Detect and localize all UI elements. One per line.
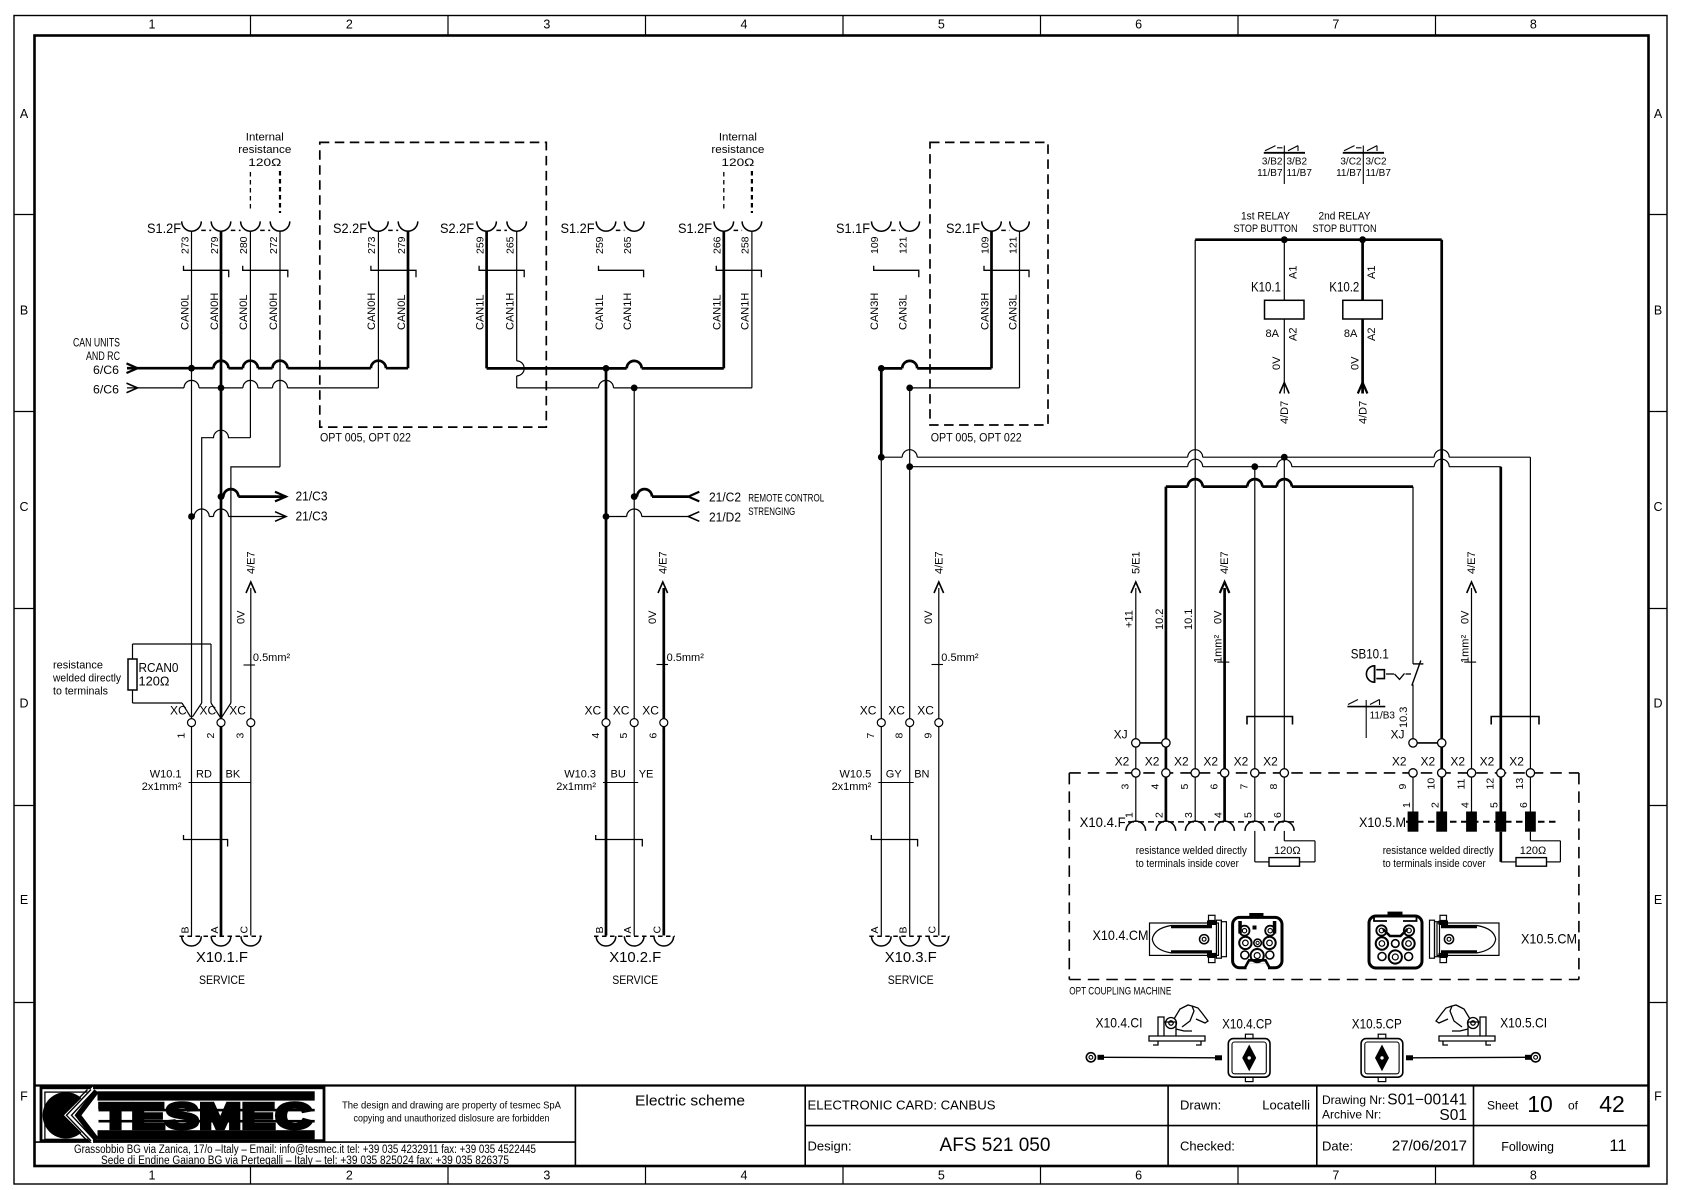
sheet reference 0V 4/E7 (mid) bbox=[1212, 551, 1231, 768]
svg-text:X2: X2 bbox=[1392, 755, 1407, 769]
svg-text:BK: BK bbox=[226, 769, 241, 781]
label internal resistance 120ohm (left) bbox=[238, 132, 291, 170]
svg-text:266: 266 bbox=[712, 236, 724, 254]
label CAN UNITS AND RC bbox=[73, 336, 120, 397]
svg-text:XC: XC bbox=[613, 704, 630, 718]
field Following 11 bbox=[1501, 1137, 1626, 1155]
svg-text:9: 9 bbox=[1397, 784, 1409, 790]
bus line CAN3H (thick) bbox=[881, 231, 991, 368]
note resistance welded X10.5 bbox=[1383, 845, 1494, 870]
svg-text:5: 5 bbox=[618, 733, 630, 739]
svg-text:X10.1.F: X10.1.F bbox=[196, 949, 248, 966]
jumper XJ right bbox=[1391, 728, 1446, 748]
svg-text:3: 3 bbox=[1120, 784, 1132, 790]
svg-text:X10.5.CM: X10.5.CM bbox=[1521, 931, 1577, 947]
svg-text:ELECTRONIC CARD: CANBUS: ELECTRONIC CARD: CANBUS bbox=[808, 1098, 996, 1113]
svg-text:10.3: 10.3 bbox=[1398, 707, 1410, 728]
svg-text:E: E bbox=[1654, 893, 1662, 907]
svg-text:4/E7: 4/E7 bbox=[1466, 551, 1478, 574]
svg-text:0V: 0V bbox=[1349, 356, 1361, 370]
svg-text:XC: XC bbox=[200, 704, 217, 718]
svg-text:3/B2: 3/B2 bbox=[1262, 157, 1283, 168]
sheet reference +11 5/E1 bbox=[1124, 551, 1143, 768]
svg-text:6: 6 bbox=[1135, 1169, 1142, 1183]
svg-text:11/B3: 11/B3 bbox=[1370, 711, 1396, 722]
rail right vertical (thick) bbox=[1440, 240, 1443, 769]
svg-text:5: 5 bbox=[1179, 784, 1191, 790]
contact cross-reference 11/B3 bbox=[1347, 700, 1395, 739]
svg-text:X10.3.F: X10.3.F bbox=[885, 949, 937, 966]
wire CAN1H down to circuit2 bbox=[633, 388, 635, 719]
svg-text:A: A bbox=[869, 926, 881, 933]
shield bracket W10.1 bbox=[184, 835, 228, 847]
connector S1.1F bbox=[836, 220, 920, 254]
svg-text:S01−00141: S01−00141 bbox=[1387, 1092, 1467, 1109]
terminal XC 3 bbox=[229, 704, 255, 739]
svg-text:F: F bbox=[1654, 1090, 1662, 1104]
svg-text:21/C3: 21/C3 bbox=[296, 509, 328, 524]
terminal X2 10 bbox=[1421, 755, 1446, 790]
svg-text:K10.2: K10.2 bbox=[1329, 279, 1359, 295]
junction dot bus2-wireB bbox=[218, 385, 225, 392]
field Design / AFS 521 050 bbox=[808, 1135, 1051, 1156]
dashed box OPT 005 OPT 022 (right) bbox=[930, 142, 1048, 425]
connector S1.2F bbox=[561, 220, 645, 254]
coupling plug X10.5.CP bbox=[1352, 1016, 1403, 1082]
svg-text:W10.3: W10.3 bbox=[564, 769, 596, 781]
internal resistance dashed leads (mid) bbox=[723, 172, 725, 212]
svg-text:CAN3L: CAN3L bbox=[1007, 295, 1019, 330]
svg-text:resistance: resistance bbox=[238, 144, 291, 156]
svg-text:4/E7: 4/E7 bbox=[933, 551, 945, 574]
wires below XC circuit1 bbox=[192, 727, 251, 936]
svg-text:5: 5 bbox=[1489, 802, 1501, 808]
wires below XC circuit2 bbox=[606, 727, 664, 936]
svg-text:259: 259 bbox=[594, 236, 606, 254]
svg-text:XC: XC bbox=[860, 704, 877, 718]
svg-text:CAN1H: CAN1H bbox=[740, 293, 752, 330]
svg-text:2nd RELAY: 2nd RELAY bbox=[1319, 211, 1372, 223]
connector X10.1.F SERVICE bbox=[179, 926, 261, 988]
svg-text:3: 3 bbox=[543, 18, 550, 32]
connector X10.4.F bbox=[1080, 812, 1295, 831]
label 0.5mm2 circuit2 bbox=[657, 652, 705, 665]
title block frame bbox=[35, 1086, 1649, 1167]
svg-text:2x1mm²: 2x1mm² bbox=[556, 781, 596, 793]
svg-text:259: 259 bbox=[474, 236, 486, 254]
svg-text:265: 265 bbox=[622, 236, 634, 254]
shield bracket group5 bbox=[716, 266, 761, 278]
terminal XC 8 bbox=[888, 704, 914, 739]
svg-text:BN: BN bbox=[914, 769, 929, 781]
svg-text:11: 11 bbox=[1455, 778, 1467, 789]
svg-text:9: 9 bbox=[923, 733, 935, 739]
svg-text:6/C6: 6/C6 bbox=[93, 383, 119, 397]
svg-text:B: B bbox=[1654, 304, 1662, 318]
net line thick to SB10.1 bbox=[1166, 479, 1413, 768]
svg-text:1: 1 bbox=[1401, 802, 1413, 808]
svg-text:13: 13 bbox=[1514, 778, 1526, 790]
svg-text:C: C bbox=[239, 926, 251, 934]
svg-text:A: A bbox=[209, 926, 221, 933]
svg-text:S01: S01 bbox=[1439, 1107, 1467, 1124]
svg-text:A1: A1 bbox=[1366, 266, 1378, 279]
svg-text:258: 258 bbox=[740, 236, 752, 254]
supply rail top (thick) bbox=[1195, 238, 1442, 241]
shield bracket W10.5 bbox=[871, 835, 917, 847]
svg-text:Electric scheme: Electric scheme bbox=[635, 1093, 745, 1110]
svg-text:D: D bbox=[1653, 697, 1662, 711]
svg-text:Sheet: Sheet bbox=[1487, 1099, 1519, 1113]
svg-text:GY: GY bbox=[886, 769, 903, 781]
svg-text:Locatelli: Locatelli bbox=[1262, 1098, 1310, 1113]
svg-text:1mm²: 1mm² bbox=[1212, 635, 1224, 663]
svg-text:X2: X2 bbox=[1145, 755, 1160, 769]
svg-text:A: A bbox=[622, 926, 634, 933]
column labels bottom bbox=[149, 1166, 1537, 1184]
wire C vertical from pin 280 bbox=[249, 231, 251, 438]
svg-text:Drawn:: Drawn: bbox=[1180, 1098, 1221, 1113]
svg-text:10: 10 bbox=[1527, 1091, 1553, 1117]
svg-text:3/C2: 3/C2 bbox=[1340, 157, 1362, 168]
junction dot bus1-wireA bbox=[188, 365, 195, 372]
terminal XC 4 bbox=[585, 704, 611, 739]
terminal X2 11 bbox=[1450, 755, 1475, 790]
svg-text:X10.4.CM: X10.4.CM bbox=[1093, 927, 1149, 943]
terminal X2 7 bbox=[1234, 755, 1259, 790]
svg-text:resistance: resistance bbox=[53, 660, 103, 672]
svg-text:120Ω: 120Ω bbox=[1274, 845, 1301, 857]
eyelet and cable X10.4 bbox=[1086, 1053, 1222, 1062]
connector S2.1F bbox=[946, 220, 1029, 254]
svg-text:4: 4 bbox=[590, 733, 602, 739]
label internal resistance 120ohm (mid) bbox=[711, 132, 764, 170]
svg-text:A: A bbox=[1654, 107, 1663, 121]
relay coil K10.2 bbox=[1329, 240, 1382, 424]
wire X2-7 riser bbox=[1254, 467, 1256, 769]
eyelet and cable X10.5 bbox=[1406, 1053, 1540, 1062]
wire C horizontal jog with hop over B bbox=[202, 430, 251, 703]
junction dot CAN3H to X2-8 branch bbox=[1281, 454, 1288, 461]
svg-text:Checked:: Checked: bbox=[1180, 1139, 1235, 1154]
svg-text:CAN1L: CAN1L bbox=[474, 295, 486, 330]
svg-text:CAN1L: CAN1L bbox=[712, 295, 724, 330]
svg-text:STOP BUTTON: STOP BUTTON bbox=[1234, 223, 1298, 235]
junction dot CAN3L to X2-7 branch bbox=[1251, 463, 1258, 470]
svg-text:of: of bbox=[1568, 1099, 1579, 1113]
svg-text:4/E7: 4/E7 bbox=[245, 551, 257, 574]
svg-text:2x1mm²: 2x1mm² bbox=[142, 781, 182, 793]
svg-text:3/C2: 3/C2 bbox=[1366, 157, 1388, 168]
svg-text:6: 6 bbox=[1135, 18, 1142, 32]
wire CAN3H down (thick) bbox=[880, 368, 883, 457]
sheet reference 4/E7 circuit2 bbox=[647, 551, 669, 718]
note resistance welded to terminals bbox=[52, 660, 121, 698]
svg-text:OPT 005, OPT 022: OPT 005, OPT 022 bbox=[931, 431, 1022, 445]
svg-text:XC: XC bbox=[917, 704, 934, 718]
shield bracket S1.2F pair 2 bbox=[243, 266, 288, 278]
shield bracket S1.1F bbox=[874, 266, 919, 278]
svg-text:S2.1F: S2.1F bbox=[946, 220, 980, 236]
junction dot CAN3H line start bbox=[878, 454, 885, 461]
svg-text:CAN0L: CAN0L bbox=[179, 295, 191, 330]
svg-text:279: 279 bbox=[209, 236, 221, 254]
svg-text:B: B bbox=[898, 926, 910, 933]
terminal X2 3 bbox=[1115, 755, 1140, 790]
svg-text:BU: BU bbox=[611, 769, 626, 781]
svg-text:1st RELAY: 1st RELAY bbox=[1241, 211, 1291, 223]
label 1st RELAY STOP BUTTON bbox=[1234, 211, 1298, 236]
svg-text:K10.1: K10.1 bbox=[1251, 279, 1281, 295]
net line CAN3H to X2-13 bbox=[881, 450, 1530, 769]
svg-text:120Ω: 120Ω bbox=[721, 157, 754, 169]
junction dot bus CAN3L bbox=[906, 385, 913, 392]
svg-text:279: 279 bbox=[396, 236, 408, 254]
svg-text:8: 8 bbox=[894, 733, 906, 739]
svg-text:Design:: Design: bbox=[808, 1139, 852, 1154]
svg-text:D: D bbox=[19, 697, 28, 711]
svg-text:welded directly: welded directly bbox=[52, 673, 121, 685]
svg-text:10.2: 10.2 bbox=[1154, 609, 1166, 630]
svg-text:120Ω: 120Ω bbox=[1520, 845, 1547, 857]
svg-text:5/E1: 5/E1 bbox=[1130, 551, 1142, 574]
svg-text:X10.5.M: X10.5.M bbox=[1359, 814, 1406, 830]
wire CAN3H below junction bbox=[880, 457, 882, 718]
svg-text:A2: A2 bbox=[1366, 328, 1378, 341]
svg-text:0V: 0V bbox=[235, 610, 247, 624]
svg-text:4: 4 bbox=[741, 1169, 748, 1183]
svg-text:6: 6 bbox=[1272, 812, 1284, 818]
svg-text:0.5mm²: 0.5mm² bbox=[667, 652, 705, 664]
svg-text:1: 1 bbox=[175, 733, 187, 739]
svg-text:4/E7: 4/E7 bbox=[1219, 551, 1231, 574]
bus line CAN1L (thick) bbox=[487, 231, 724, 368]
svg-text:X10.5.CP: X10.5.CP bbox=[1352, 1016, 1402, 1032]
svg-text:1mm²: 1mm² bbox=[1459, 635, 1471, 663]
cable W10.5 bbox=[832, 769, 930, 794]
svg-text:11: 11 bbox=[1609, 1137, 1626, 1155]
contact cross-reference table K10.1 bbox=[1257, 146, 1312, 185]
field Drawn Locatelli bbox=[1180, 1098, 1310, 1113]
svg-text:SB10.1: SB10.1 bbox=[1351, 646, 1389, 662]
wires X2 to X10.4.F bbox=[1136, 777, 1285, 821]
svg-text:X10.2.F: X10.2.F bbox=[609, 949, 661, 966]
svg-text:8A: 8A bbox=[1344, 328, 1358, 340]
svg-text:XC: XC bbox=[170, 704, 187, 718]
svg-text:X10.4.CI: X10.4.CI bbox=[1096, 1015, 1143, 1031]
connector S2.2F bbox=[333, 220, 418, 254]
resistor RCAN0 120ohm bbox=[128, 644, 231, 717]
TESMEC logo bbox=[41, 1087, 324, 1145]
shield bracket S2.1F bbox=[984, 266, 1029, 278]
svg-text:X2: X2 bbox=[1234, 755, 1249, 769]
svg-text:0.5mm²: 0.5mm² bbox=[253, 652, 291, 664]
svg-text:11/B7: 11/B7 bbox=[1336, 168, 1362, 179]
svg-text:XC: XC bbox=[888, 704, 905, 718]
svg-text:X10.4.F: X10.4.F bbox=[1080, 814, 1126, 830]
svg-text:Internal: Internal bbox=[246, 132, 284, 144]
svg-text:RD: RD bbox=[196, 769, 212, 781]
dashed box OPT 005 OPT 022 (left) bbox=[320, 142, 547, 427]
wire CAN3L down bbox=[909, 388, 911, 719]
svg-text:to terminals: to terminals bbox=[53, 686, 108, 698]
svg-text:REMOTE CONTROL: REMOTE CONTROL bbox=[748, 493, 824, 505]
row labels left bbox=[14, 107, 35, 1104]
shield bracket X2 7-8 bbox=[1247, 717, 1293, 725]
svg-text:1: 1 bbox=[149, 1169, 156, 1183]
svg-text:6: 6 bbox=[1208, 784, 1220, 790]
terminal X2 13 bbox=[1509, 755, 1534, 790]
connector S1.2F bbox=[147, 220, 290, 254]
connector drawing X10.5.CM bbox=[1369, 912, 1577, 968]
svg-text:Sede di Endine Gaiano BG via P: Sede di Endine Gaiano BG via Pertegalli … bbox=[101, 1155, 509, 1167]
svg-text:CAN1H: CAN1H bbox=[622, 293, 634, 330]
svg-text:XC: XC bbox=[585, 704, 602, 718]
connector X10.5.M male pins bbox=[1359, 802, 1560, 832]
svg-text:S1.1F: S1.1F bbox=[836, 220, 870, 236]
svg-text:+11: +11 bbox=[1124, 610, 1136, 628]
svg-text:273: 273 bbox=[179, 236, 191, 254]
svg-text:CAN3H: CAN3H bbox=[979, 293, 991, 330]
label 0.5mm2 circuit3 bbox=[932, 652, 979, 665]
field Drawing Nr / Archive Nr bbox=[1322, 1092, 1467, 1125]
svg-text:4: 4 bbox=[1212, 812, 1224, 818]
svg-text:4: 4 bbox=[741, 18, 748, 32]
shield bracket W10.3 bbox=[596, 835, 643, 847]
svg-text:21/C3: 21/C3 bbox=[296, 489, 328, 504]
wires below XC circuit3 bbox=[881, 727, 939, 936]
svg-text:XJ: XJ bbox=[1391, 728, 1405, 742]
net line CAN3L to X2-12 bbox=[910, 459, 1501, 768]
shield bracket S1.2F group4 bbox=[599, 266, 644, 278]
svg-text:8: 8 bbox=[1530, 18, 1537, 32]
svg-text:4: 4 bbox=[1150, 784, 1162, 790]
terminal X2 4 bbox=[1145, 755, 1170, 790]
push button SB10.1 bbox=[1351, 646, 1424, 739]
svg-text:8: 8 bbox=[1530, 1169, 1537, 1183]
svg-text:W10.1: W10.1 bbox=[150, 769, 182, 781]
junction dot 21/D2 bbox=[603, 513, 610, 520]
disclaimer text bbox=[342, 1100, 561, 1125]
svg-text:4: 4 bbox=[1459, 802, 1471, 808]
svg-text:121: 121 bbox=[1007, 236, 1019, 254]
bus line CAN3L bbox=[910, 231, 1020, 388]
label 2nd RELAY STOP BUTTON bbox=[1313, 211, 1377, 236]
svg-text:S1.2F: S1.2F bbox=[678, 220, 712, 236]
svg-text:Date:: Date: bbox=[1322, 1139, 1353, 1154]
svg-text:280: 280 bbox=[238, 236, 250, 254]
svg-text:XC: XC bbox=[229, 704, 246, 718]
svg-text:AFS 521 050: AFS 521 050 bbox=[940, 1135, 1051, 1156]
wire X2-8 riser bbox=[1283, 457, 1285, 768]
svg-text:265: 265 bbox=[505, 236, 517, 254]
svg-text:X10.5.CI: X10.5.CI bbox=[1500, 1015, 1547, 1031]
sheet reference 0V 4/E7 (right) bbox=[1459, 551, 1478, 768]
junction dot CAN3L line start bbox=[906, 463, 913, 470]
svg-text:X2: X2 bbox=[1421, 755, 1436, 769]
terminal XC 1 bbox=[170, 704, 196, 739]
svg-text:resistance welded directly: resistance welded directly bbox=[1383, 845, 1494, 857]
svg-text:7: 7 bbox=[1332, 18, 1339, 32]
svg-text:2x1mm²: 2x1mm² bbox=[832, 781, 872, 793]
shield bracket X2 12-13 bbox=[1491, 717, 1539, 725]
svg-text:OPT COUPLING MACHINE: OPT COUPLING MACHINE bbox=[1069, 986, 1171, 998]
junction dot bus CAN1L - wire G bbox=[603, 365, 610, 372]
cable W10.1 bbox=[142, 769, 251, 794]
svg-text:6: 6 bbox=[648, 733, 660, 739]
wire CAN0H B vertical (thick) bbox=[220, 231, 223, 718]
svg-text:11/B7: 11/B7 bbox=[1257, 168, 1283, 179]
junction dot K10.2 A1 bbox=[1359, 236, 1366, 243]
junction dot bus CAN3H bbox=[878, 365, 885, 372]
svg-text:109: 109 bbox=[979, 236, 991, 254]
field Sheet 10 of 42 bbox=[1487, 1091, 1625, 1117]
svg-text:STRENGING: STRENGING bbox=[748, 506, 795, 518]
junction dot 21/C3 upper bbox=[218, 493, 225, 500]
svg-text:3/B2: 3/B2 bbox=[1287, 157, 1308, 168]
svg-text:CAN3L: CAN3L bbox=[898, 295, 910, 330]
svg-text:C: C bbox=[927, 926, 939, 934]
address lines bbox=[74, 1144, 536, 1167]
svg-text:5: 5 bbox=[938, 1169, 945, 1183]
clamp drawing X10.5.CI bbox=[1436, 1005, 1547, 1045]
svg-text:A: A bbox=[20, 107, 29, 121]
svg-text:S2.2F: S2.2F bbox=[333, 220, 367, 236]
svg-text:F: F bbox=[20, 1090, 28, 1104]
net arrow 21/C3 lower bbox=[192, 509, 328, 524]
svg-text:7: 7 bbox=[1332, 1169, 1339, 1183]
svg-text:Following: Following bbox=[1501, 1140, 1554, 1154]
svg-text:Grassobbio BG via Zanica, 17/o: Grassobbio BG via Zanica, 17/o –Italy – … bbox=[74, 1144, 536, 1156]
rail left vertical 10.1 bbox=[1194, 240, 1196, 769]
svg-text:11/B7: 11/B7 bbox=[1366, 168, 1392, 179]
svg-text:5: 5 bbox=[938, 18, 945, 32]
svg-text:1: 1 bbox=[149, 18, 156, 32]
contact cross-reference table K10.2 bbox=[1336, 146, 1391, 185]
svg-text:3: 3 bbox=[543, 1169, 550, 1183]
net arrow 21/D2 STRENGING bbox=[606, 506, 795, 525]
svg-text:6: 6 bbox=[1518, 802, 1530, 808]
svg-text:B: B bbox=[179, 926, 191, 933]
svg-text:21/C2: 21/C2 bbox=[709, 490, 741, 505]
svg-text:X2: X2 bbox=[1480, 755, 1495, 769]
terminal XC 2 bbox=[200, 704, 226, 739]
cable W10.3 bbox=[556, 769, 653, 794]
bus line CAN1H bbox=[517, 231, 752, 388]
internal resistance dashed leads (left) bbox=[249, 172, 251, 212]
svg-text:120Ω: 120Ω bbox=[139, 674, 170, 689]
svg-text:10: 10 bbox=[1426, 778, 1438, 790]
svg-text:B: B bbox=[594, 926, 606, 933]
coupling plug X10.4.CP bbox=[1222, 1016, 1272, 1082]
terminal XC 5 bbox=[613, 704, 639, 739]
svg-text:The design and drawing are pro: The design and drawing are property of t… bbox=[342, 1100, 561, 1112]
svg-text:4/D7: 4/D7 bbox=[1357, 401, 1369, 424]
svg-text:12: 12 bbox=[1485, 778, 1497, 790]
wire CAN1L down to circuit2 (thick) bbox=[605, 368, 608, 718]
svg-text:X2: X2 bbox=[1203, 755, 1218, 769]
svg-text:11/B7: 11/B7 bbox=[1287, 168, 1313, 179]
svg-text:S1.2F: S1.2F bbox=[147, 220, 181, 236]
svg-text:C: C bbox=[652, 926, 664, 934]
svg-text:SERVICE: SERVICE bbox=[888, 973, 934, 987]
svg-text:2: 2 bbox=[1430, 802, 1442, 808]
svg-text:YE: YE bbox=[639, 769, 654, 781]
svg-text:E: E bbox=[20, 893, 28, 907]
svg-text:resistance welded directly: resistance welded directly bbox=[1136, 845, 1247, 857]
sheet reference 4/E7 circuit3 bbox=[923, 551, 945, 718]
svg-text:Drawing Nr:: Drawing Nr: bbox=[1322, 1093, 1385, 1107]
